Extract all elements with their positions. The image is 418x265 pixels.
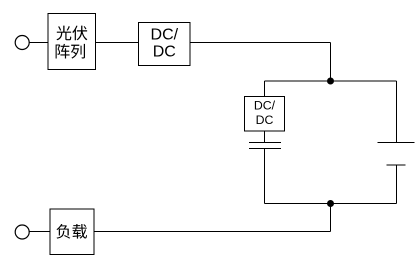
DC/DC converter U2 box [245,96,285,131]
DC/DC converter U1 box [139,22,191,65]
wire load box to terminal T2 [29,231,50,233]
wire top bus (node A left and right) [265,80,397,82]
svg-text:DC/: DC/ [151,27,179,44]
node A junction dot [327,78,334,85]
wire U1 to node A (horizontal) [190,42,331,44]
svg-text:DC: DC [256,113,274,127]
svg-text:DC/: DC/ [254,99,276,113]
label 光伏 (PV) [56,26,87,41]
wire top bus down to DC/DC U2 [264,81,266,96]
terminal T1 (top input) [15,36,29,50]
svg-text:DC: DC [153,44,176,61]
label 负载 (load) [56,224,87,239]
load box (负载) [50,209,94,255]
terminal T2 (bottom output) [15,225,29,239]
wire bottom bus [265,203,397,205]
capacitor C1 top plate [249,142,281,144]
wire down into node A (vertical) [330,43,332,82]
wire node B down to load level [330,204,332,232]
wire PV array to DC/DC U1 [96,42,139,44]
wire U2 to capacitor C1 [264,131,266,142]
wire top bus down to battery BT1 [396,81,398,143]
node B junction dot [327,200,334,207]
battery BT1 negative plate (short) [387,164,406,166]
capacitor C1 bottom plate [249,148,281,150]
wire T1 to PV array box [29,42,48,44]
label 阵列 (array) [56,44,85,59]
battery BT1 positive plate (long) [378,142,415,144]
wire node B to load box [94,231,331,233]
wire C1 to bottom bus [264,149,266,204]
PV array box (光伏阵列) [48,14,96,70]
wire battery BT1 to bottom bus [396,165,398,204]
